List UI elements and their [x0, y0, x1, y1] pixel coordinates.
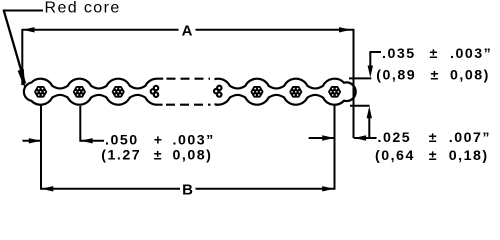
cable break: dashed bottom edge	[166, 104, 211, 106]
svg-text:±: ±	[154, 148, 163, 164]
conductor strand cluster lobe 8	[329, 87, 340, 96]
dimension A left arrowhead	[23, 27, 35, 32]
.035 up arrowhead	[367, 106, 372, 118]
conductor strand cluster lobe 7	[291, 87, 302, 96]
svg-text:.007”: .007”	[449, 130, 491, 146]
conductor strand cluster lobe 3	[113, 87, 124, 96]
conductor strand cluster lobe 6	[252, 87, 263, 96]
cable outline right solid section	[215, 79, 356, 105]
.050 outside arrow line left	[23, 140, 42, 142]
.025 extension line (lobe8 centre, shared with B)	[334, 104, 336, 190]
.025 leader arrowhead (points left)	[354, 135, 366, 140]
dimension B line (right segment)	[196, 188, 335, 190]
Red core leader arrowhead	[18, 69, 26, 90]
svg-text:0,08): 0,08)	[450, 68, 490, 84]
svg-text:.050: .050	[105, 133, 139, 149]
svg-text:(1.27: (1.27	[101, 148, 141, 164]
svg-text:Red core: Red core	[45, 0, 121, 17]
.050 outside arrowhead left (points right)	[29, 138, 41, 143]
conductor strand cluster lobe 2	[74, 87, 85, 96]
svg-text:.035: .035	[382, 46, 416, 62]
dimension B line (left segment)	[41, 188, 180, 190]
svg-text:.003”: .003”	[450, 46, 492, 62]
.035 leader horizontal	[370, 51, 381, 53]
.035 top extension line at cable top edge	[349, 77, 371, 79]
.050 left extension line (lobe1 centre, shared with B)	[40, 106, 42, 190]
.025 outside arrow line left	[309, 137, 335, 139]
dimension A right arrowhead	[339, 27, 351, 32]
svg-text:A: A	[182, 22, 193, 39]
svg-text:±: ±	[429, 148, 438, 164]
.035 down arrowhead	[368, 66, 373, 78]
svg-text:±: ±	[430, 46, 439, 62]
svg-text:B: B	[182, 182, 193, 197]
dimension A left extension line	[21, 29, 23, 85]
partial conductor cluster at left break	[151, 86, 159, 97]
cable break: dashed top edge	[167, 78, 211, 80]
dimension A line (left segment)	[22, 29, 178, 31]
.050 right extension line (lobe2 centre)	[79, 106, 81, 142]
svg-text:±: ±	[431, 68, 440, 84]
dimension A line (right segment)	[196, 29, 354, 31]
.025 outside arrowhead (points right)	[322, 135, 334, 140]
svg-text:(0,89: (0,89	[376, 68, 416, 84]
svg-text:.025: .025	[378, 130, 412, 146]
.050 leader arrowhead (points left)	[81, 138, 93, 143]
Red core leader diagonal	[4, 10, 26, 84]
svg-text:+: +	[154, 133, 164, 149]
svg-text:±: ±	[429, 130, 438, 146]
svg-text:.003”: .003”	[173, 133, 215, 149]
.035 bottom extension line at cable bottom edge	[350, 105, 370, 107]
conductor strand cluster (7-wire) lobe 1	[35, 87, 46, 96]
svg-text:0,08): 0,08)	[173, 148, 213, 164]
.035 leader vertical	[369, 51, 371, 70]
partial conductor cluster at right break	[214, 86, 222, 97]
cable outline left solid section	[24, 79, 163, 105]
dimension A right extension line (down to .025 leader)	[353, 29, 355, 138]
svg-text:0,18): 0,18)	[449, 148, 489, 164]
dimension B left arrowhead	[41, 186, 53, 191]
.050 leader line	[80, 140, 104, 142]
.035 up arrow line	[368, 114, 370, 138]
dimension B right arrowhead	[322, 186, 334, 191]
.025 leader line	[354, 137, 377, 139]
Red core leader horizontal	[4, 10, 44, 12]
svg-text:(0,64: (0,64	[375, 148, 415, 164]
